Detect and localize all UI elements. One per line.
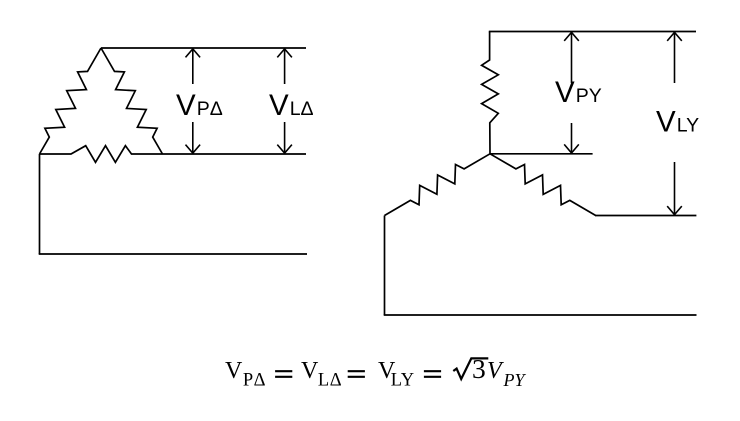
svg-text:V: V [487,358,504,384]
svg-text:LY: LY [391,371,415,391]
equation: V_P-delta = V_L-delta = V_LY = sqrt(3) V_PY [225,353,526,391]
wire from delta apex to right (top terminal) [101,47,306,49]
resistor vertical leg of wye [482,32,499,154]
svg-text:VPY: VPY [555,76,602,109]
svg-text:PY: PY [503,370,527,390]
arrow up, V_L-delta upper [277,49,292,84]
equation equals sign 1 [275,371,292,377]
svg-text:V: V [225,358,243,384]
svg-text:V: V [301,358,319,384]
arrow down, V_L-delta lower [277,122,292,153]
resistor lower-right leg of wye [490,154,596,216]
wire down from delta bottom-left vertex [39,154,41,254]
wire bottom horizontal (right diagram) [384,314,697,316]
resistor bottom side of delta (B-C) [40,146,163,163]
arrow up, V_P-delta upper [186,49,201,84]
svg-text:VPΔ: VPΔ [176,89,223,122]
arrow down, V_P-delta lower [186,122,201,153]
resistor left side of delta (A-B) [40,48,102,154]
svg-text:PΔ: PΔ [243,371,266,391]
wire from right leg end to right [595,215,696,217]
equation radical sign of sqrt(3) [453,358,488,379]
equation equals sign 2 [348,371,365,377]
arrow up, V_PY upper [564,32,579,83]
svg-text:VLY: VLY [656,105,699,138]
arrow up, V_LY upper [667,32,682,83]
arrow down, V_PY lower [564,123,579,153]
wire bottom horizontal (left diagram) [39,253,307,255]
arrow down, V_LY lower [667,162,682,215]
svg-text:VLΔ: VLΔ [269,89,314,122]
wire top horizontal (right diagram) [489,31,696,33]
resistor lower-left leg of wye [385,154,491,216]
equation equals sign 3 [424,371,441,377]
wire from wye neutral node to right [490,153,593,155]
resistor right side of delta (A-C) [101,48,163,154]
wire down from left leg end [384,216,386,316]
wire from delta bottom-right vertex to right (mid terminal) [163,153,307,155]
svg-text:LΔ: LΔ [318,371,342,391]
